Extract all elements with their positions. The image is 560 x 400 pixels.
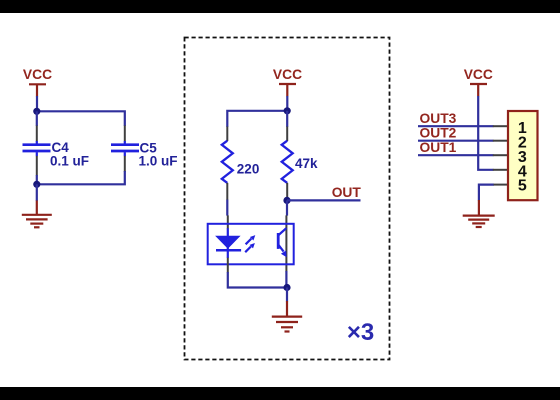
LED D1 (215, 236, 241, 251)
pin 1 lead (493, 125, 508, 127)
ground (middle) (272, 301, 302, 332)
wire bottom horizontal (left) (37, 171, 125, 184)
wire VCC stem to node (left) (36, 96, 38, 111)
svg-text:OUT3: OUT3 (420, 111, 457, 126)
svg-text:5: 5 (518, 178, 527, 195)
wire LED cathode down and across (228, 272, 287, 288)
ground (right) (463, 200, 495, 227)
wire pin5 to ground (479, 185, 494, 201)
wire OUT1 (418, 154, 494, 156)
svg-text:VCC: VCC (464, 67, 493, 82)
connector J1 (508, 111, 538, 200)
junction bottom-left (33, 181, 40, 188)
wire C4 bottom (36, 175, 38, 184)
svg-text:0.1 uF: 0.1 uF (50, 154, 89, 169)
wire C4 top (36, 111, 38, 126)
pin R47k top lead (286, 127, 288, 142)
pin 2 lead (493, 140, 508, 142)
ground (left) (22, 201, 52, 228)
junction top-left (33, 108, 40, 115)
svg-text:VCC: VCC (23, 67, 52, 82)
wire LED anode inside (227, 228, 229, 236)
junction emitter node (283, 284, 290, 291)
wire VCC stem to node (middle) (286, 96, 288, 111)
svg-text:×3: ×3 (347, 319, 374, 346)
dashed repeat box (185, 38, 390, 360)
wire emitter down (285, 271, 287, 288)
svg-text:47k: 47k (295, 156, 318, 171)
bottom letterbox bar (0, 387, 560, 400)
pin C4 top lead (36, 126, 38, 142)
junction OUT node (283, 197, 290, 204)
svg-text:VCC: VCC (273, 67, 302, 82)
wire to ground (middle) (286, 288, 288, 302)
wire OUT node to collector (286, 200, 288, 215)
wire top horizontal (middle) (227, 111, 287, 127)
power symbol VCC (left) (23, 67, 52, 96)
wire OUT (287, 199, 361, 201)
pin LED cathode lead (227, 258, 229, 273)
resistor 47k (282, 141, 293, 183)
optocoupler box U1 (208, 224, 294, 264)
wire VCC to pin4 (478, 96, 493, 170)
pin C5 bottom lead (124, 156, 126, 172)
pin 3 lead (493, 154, 508, 156)
svg-text:220: 220 (237, 162, 260, 177)
svg-text:OUT: OUT (332, 185, 362, 200)
wire R47k top (286, 111, 288, 127)
svg-text:1.0 uF: 1.0 uF (139, 154, 178, 169)
wire OUT3 (418, 125, 494, 127)
pin 4 lead (493, 169, 508, 171)
pin C4 bottom lead (36, 156, 38, 176)
capacitor C4 (23, 141, 51, 156)
resistor 220 (222, 141, 233, 183)
svg-text:OUT2: OUT2 (420, 126, 457, 141)
power symbol VCC (middle) (273, 67, 302, 96)
svg-text:OUT1: OUT1 (420, 140, 457, 155)
light arrow lower (245, 243, 255, 252)
pin R220 top lead (226, 127, 228, 142)
pin R220 bottom lead (226, 183, 228, 200)
wire R220 to LED (226, 200, 228, 216)
pin R47k bottom lead (286, 183, 288, 200)
pin collector/emitter lead (continuous behind symbol) (285, 215, 287, 271)
capacitor C5 (111, 141, 139, 156)
pin LED anode lead (227, 215, 229, 228)
phototransistor Q1 (278, 228, 286, 257)
power symbol VCC (right) (464, 67, 493, 96)
top letterbox bar (0, 0, 560, 13)
wire LED cathode inside (227, 250, 229, 258)
wire to ground (left) (36, 184, 38, 201)
light arrow upper (246, 235, 256, 244)
pin C5 top lead (124, 126, 126, 142)
wire OUT2 (418, 140, 494, 142)
wire top horizontal (left) (37, 111, 125, 126)
pin 5 lead (494, 184, 509, 186)
junction VCC (middle) (284, 107, 291, 114)
